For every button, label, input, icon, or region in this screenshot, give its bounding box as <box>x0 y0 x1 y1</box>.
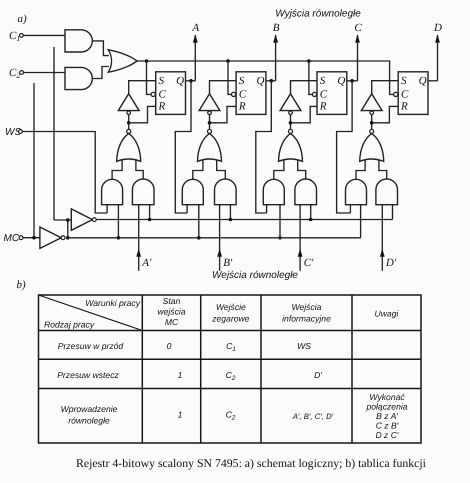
node stage3 R tap <box>289 121 293 125</box>
wire WS to stage1 AND <box>22 132 107 214</box>
FF4 clock bubble <box>394 92 398 96</box>
svg-text:Q: Q <box>419 75 427 87</box>
svg-text:R: R <box>319 101 327 113</box>
svg-text:Przesuw w przód: Przesuw w przód <box>58 341 124 351</box>
svg-text:B′: B′ <box>223 257 233 269</box>
svg-text:C: C <box>239 88 247 100</box>
wire stage1 load-enable stub <box>149 205 151 220</box>
wire AND left output to NOR N2 <box>193 160 203 180</box>
wire AND right output to NOR N3 <box>298 160 306 180</box>
wire clock drop to FF3 C input <box>309 61 313 94</box>
wire serial input stub stage1 <box>106 205 108 213</box>
svg-text:Q: Q <box>176 75 184 87</box>
svg-text:Wejście: Wejście <box>216 302 246 312</box>
buffer inverter U4 <box>199 94 220 115</box>
svg-text:C: C <box>401 88 409 100</box>
svg-text:MC: MC <box>4 233 20 244</box>
wire stage3 load-enable stub <box>310 205 312 220</box>
node stage2 R tap <box>208 121 212 125</box>
svg-text:informacyjne: informacyjne <box>282 314 331 324</box>
svg-text:D′: D′ <box>385 257 397 269</box>
node stage1 R tap <box>127 121 131 125</box>
input C1 terminal <box>9 30 23 43</box>
wire serial input stub stage4 <box>349 205 351 213</box>
wire NOR output node to U5 input <box>290 115 292 130</box>
wire stage3 shift-enable stub <box>279 205 281 238</box>
NOR gate N3 <box>279 129 303 161</box>
AND gate A3L <box>263 179 284 204</box>
wire AND right output to NOR N4 <box>379 160 387 180</box>
wire NOR output to FF4 R input <box>372 106 399 122</box>
node load-enable tap 1 <box>148 218 152 222</box>
node U1 output <box>66 236 70 240</box>
rail MC (load enable) wire <box>96 219 392 221</box>
AND gate A1L <box>102 179 123 204</box>
wire G1 output to OR G3 <box>92 41 109 56</box>
table frame <box>39 295 422 443</box>
FF2 clock bubble <box>232 92 236 96</box>
svg-text:Q: Q <box>337 75 345 87</box>
input WS terminal <box>5 127 22 138</box>
svg-text:Wykonać: Wykonać <box>369 392 405 402</box>
svg-text:Przesuw wstecz: Przesuw wstecz <box>57 370 119 380</box>
svg-text:D: D <box>433 22 442 34</box>
input A' line with arrow <box>136 205 152 271</box>
svg-text:B: B <box>273 22 280 34</box>
wire serial input stub stage3 <box>266 205 268 213</box>
AND gate A1R <box>132 179 154 205</box>
wire FF4 Q output <box>428 80 438 82</box>
svg-text:0: 0 <box>167 341 172 351</box>
svg-text:D′: D′ <box>314 370 322 380</box>
wire C1 to AND G1 <box>23 34 65 36</box>
input MC terminal <box>4 233 23 244</box>
wire FF3 Q to stage4 serial AND <box>337 81 353 213</box>
node shift-enable tap 3 <box>278 236 282 240</box>
svg-text:R: R <box>158 101 166 113</box>
AND gate A3R <box>295 179 317 205</box>
svg-text:równoległe: równoległe <box>68 416 110 426</box>
AND gate G2 <box>65 67 92 89</box>
svg-text:R: R <box>400 101 408 113</box>
input C' line with arrow <box>298 205 314 271</box>
svg-text:Rodzaj pracy: Rodzaj pracy <box>44 319 95 329</box>
clock rail wire <box>137 61 393 94</box>
svg-text:A′: A′ <box>141 257 152 269</box>
svg-text:C′: C′ <box>304 257 314 269</box>
output B arrow <box>273 22 280 81</box>
wire AND left output to NOR N3 <box>274 160 284 180</box>
FF3 clock bubble <box>312 92 316 96</box>
svg-text:Q: Q <box>257 75 265 87</box>
wire serial input stub stage2 <box>186 205 188 213</box>
wire U3 output to FF1 S input <box>129 81 156 94</box>
OR gate G3 <box>108 50 137 72</box>
table row 2 <box>57 370 322 382</box>
svg-text:Wprowadzenie: Wprowadzenie <box>61 404 118 414</box>
input C2 terminal <box>9 67 24 80</box>
table header texts <box>44 296 400 329</box>
wire NOT-MC riser to G1 input <box>53 47 55 220</box>
wire U4 output to FF2 S input <box>210 81 237 94</box>
svg-text:MC: MC <box>165 317 179 327</box>
wire FF2 Q output <box>266 80 276 82</box>
input B' line with arrow <box>217 205 233 271</box>
NOR gate N2 <box>198 129 222 161</box>
svg-text:C: C <box>159 88 167 100</box>
wire G2 output to OR G3 <box>92 67 109 79</box>
node clock tap 1 <box>145 59 149 63</box>
wire MC to inverter U1 <box>23 237 40 239</box>
inverter U2 <box>71 209 96 230</box>
node shift-enable tap 2 <box>197 236 201 240</box>
svg-text:zegarowe: zegarowe <box>211 314 249 324</box>
svg-text:R: R <box>238 101 246 113</box>
svg-text:połączenia: połączenia <box>365 402 407 412</box>
wire NOR output to FF1 R input <box>129 106 156 122</box>
node U2 input <box>66 218 70 222</box>
NOR gate N1 <box>117 129 141 161</box>
wire MC riser to G2 input <box>33 83 35 238</box>
NOR gate N4 <box>360 129 384 161</box>
wire FF2 Q to stage3 serial AND <box>256 81 271 213</box>
AND gate G1 <box>65 30 92 52</box>
output D arrow <box>433 22 442 81</box>
node load-enable tap 2 <box>229 218 233 222</box>
wire clock drop to FF2 C input <box>228 61 232 94</box>
wire AND right output to NOR N1 <box>136 160 143 180</box>
table row 3 <box>61 392 408 440</box>
flip-flop FF1 <box>156 72 186 115</box>
AND gate A4L <box>346 179 367 204</box>
svg-text:D z C′: D z C′ <box>375 430 398 440</box>
input D' line with arrow <box>380 205 397 271</box>
AND gate A4R <box>376 179 398 205</box>
wire stage4 load-enable stub <box>392 205 394 220</box>
svg-text:b): b) <box>17 279 27 291</box>
buffer inverter U5 <box>280 94 301 115</box>
node load-enable tap 3 <box>309 218 313 222</box>
svg-text:S: S <box>320 75 326 87</box>
wire FF3 Q output <box>347 80 358 82</box>
wire C2 to AND G2 <box>24 72 65 74</box>
svg-text:C: C <box>354 22 362 34</box>
node stage4 R tap <box>370 121 374 125</box>
FF1 clock bubble <box>151 92 155 96</box>
svg-text:Rejestr 4-bitowy scalony SN 74: Rejestr 4-bitowy scalony SN 7495: a) sch… <box>76 456 427 470</box>
wire NOR output node to U4 input <box>209 115 211 130</box>
AND gate A2R <box>215 179 237 205</box>
svg-text:S: S <box>239 75 245 87</box>
flip-flop FF3 <box>317 72 347 115</box>
node FF1 Q branch <box>189 79 193 83</box>
svg-text:C z B′: C z B′ <box>376 421 399 431</box>
svg-text:wejścia: wejścia <box>157 307 185 317</box>
output C arrow <box>354 22 362 81</box>
svg-text:S: S <box>401 75 407 87</box>
wire NOR output node to U6 input <box>371 115 373 130</box>
svg-text:Stan: Stan <box>163 296 181 306</box>
wire U1 output to U2 input and G1 riser <box>54 220 71 238</box>
svg-text:Wejścia równoległe: Wejścia równoległe <box>212 270 298 281</box>
output A arrow <box>191 22 199 81</box>
wire NOR output to FF2 R input <box>210 106 237 122</box>
node FF3 Q branch <box>350 79 354 83</box>
svg-text:WS: WS <box>297 341 311 351</box>
wire NOR output node to U3 input <box>128 115 130 130</box>
node shift-enable tap 1 <box>117 236 121 240</box>
svg-text:B z A′: B z A′ <box>376 411 398 421</box>
node clock tap 3 <box>307 59 311 63</box>
svg-text:S: S <box>159 75 165 87</box>
rail NOT-MC (shift enable) wire <box>68 237 361 239</box>
wire AND left output to NOR N1 <box>112 160 122 180</box>
node FF2 Q branch <box>270 79 274 83</box>
wire FF1 Q output <box>186 80 196 82</box>
svg-text:A′, B′, C′, D′: A′, B′, C′, D′ <box>292 412 334 421</box>
wire AND right output to NOR N2 <box>217 160 226 180</box>
svg-text:C: C <box>320 88 328 100</box>
buffer inverter U3 <box>118 94 139 115</box>
svg-text:Warunki pracy: Warunki pracy <box>85 298 140 308</box>
svg-text:1: 1 <box>178 370 183 380</box>
node MC branch <box>32 236 36 240</box>
svg-text:Uwagi: Uwagi <box>375 309 400 319</box>
wire stage1 shift-enable stub <box>117 205 119 238</box>
buffer inverter U6 <box>361 94 382 115</box>
inverter U1 <box>40 227 65 248</box>
wire stage4 shift-enable stub <box>360 205 362 238</box>
wire FF1 Q to stage2 serial AND <box>175 81 191 213</box>
wire stage2 load-enable stub <box>229 205 231 220</box>
flip-flop FF2 <box>236 72 266 115</box>
wire U5 output to FF3 S input <box>291 81 318 94</box>
wire U6 output to FF4 S input <box>372 81 399 94</box>
svg-text:a): a) <box>18 13 28 25</box>
wire stage2 shift-enable stub <box>198 205 200 238</box>
node clock tap 2 <box>226 59 230 63</box>
table row 1 <box>58 341 311 353</box>
flip-flop FF4 <box>398 72 428 115</box>
wire AND left output to NOR N4 <box>356 160 365 180</box>
svg-text:A: A <box>191 22 199 34</box>
wire clock drop to FF1 C input <box>147 61 152 94</box>
wire NOR output to FF3 R input <box>291 106 318 122</box>
AND gate A2L <box>182 179 203 204</box>
svg-text:Wejścia: Wejścia <box>292 302 322 312</box>
svg-text:Wyjścia równoległe: Wyjścia równoległe <box>275 9 361 20</box>
svg-text:1: 1 <box>178 410 183 420</box>
